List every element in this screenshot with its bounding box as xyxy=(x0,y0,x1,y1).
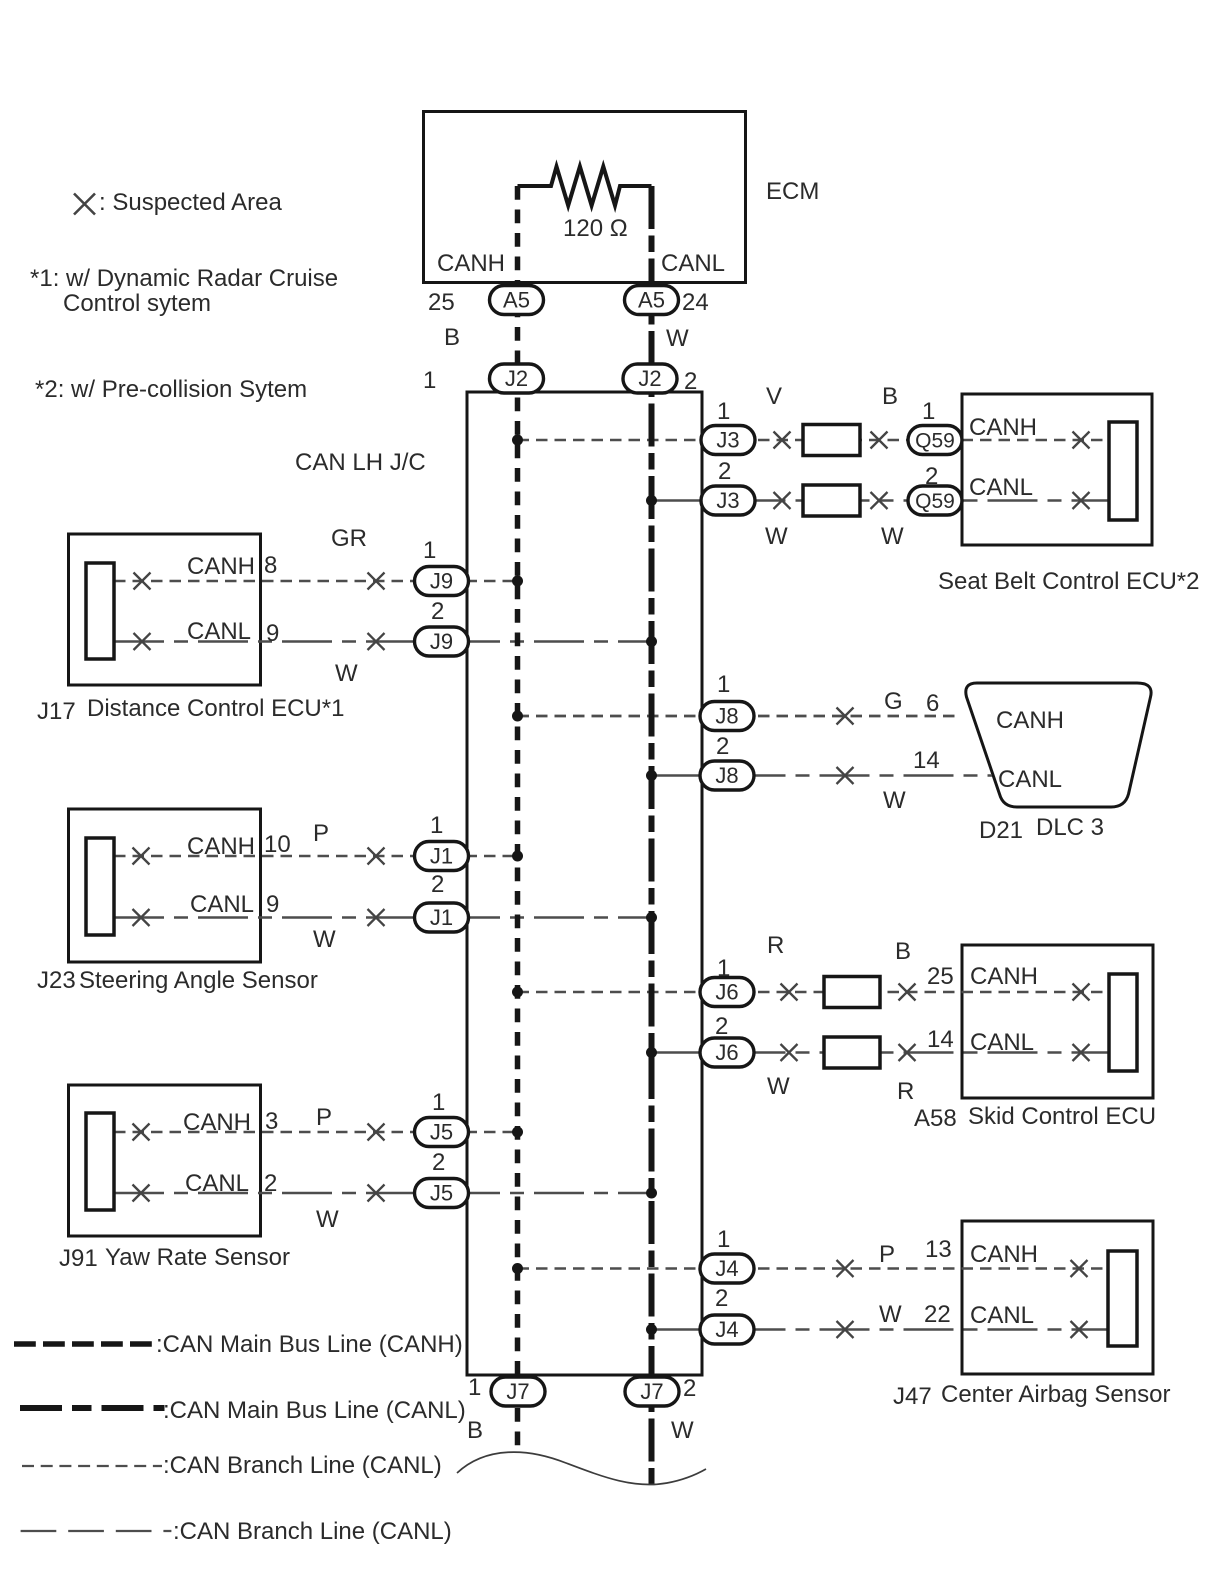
svg-text::CAN Main Bus Line (CANL): :CAN Main Bus Line (CANL) xyxy=(163,1397,466,1424)
connector J8 pin 2 xyxy=(700,761,754,790)
svg-text:1: 1 xyxy=(468,1374,481,1401)
svg-text:24: 24 xyxy=(682,289,709,316)
svg-text:J17: J17 xyxy=(37,698,76,725)
svg-text:J1: J1 xyxy=(430,905,453,930)
x mark (suspected area) xyxy=(368,848,385,865)
svg-text:G: G xyxy=(884,688,903,715)
x mark (suspected area) xyxy=(1073,1044,1090,1061)
connector bar skid control ECU xyxy=(1109,974,1137,1071)
svg-text:2: 2 xyxy=(716,733,729,760)
svg-text:J5: J5 xyxy=(430,1181,453,1206)
x mark (suspected area) xyxy=(837,767,854,784)
Steering Angle Sensor box J23 xyxy=(69,809,261,962)
connector J9 pin 2 xyxy=(415,627,469,656)
svg-text:13: 13 xyxy=(925,1236,952,1263)
svg-text:2: 2 xyxy=(715,1013,728,1040)
svg-text:W: W xyxy=(881,523,904,550)
connector bar seat belt ECU xyxy=(1109,422,1137,520)
junction CANH bus / J9 branch xyxy=(512,576,523,587)
svg-text:CANH: CANH xyxy=(437,250,505,277)
junction CANL bus / J4 branch xyxy=(646,1324,657,1335)
splice block skid CANL row xyxy=(824,1037,880,1068)
svg-text:Control sytem: Control sytem xyxy=(63,290,211,317)
svg-text:J7: J7 xyxy=(506,1379,529,1404)
svg-text:8: 8 xyxy=(264,552,277,579)
svg-text:10: 10 xyxy=(264,831,291,858)
junction CANH bus / J3 branch xyxy=(512,435,523,446)
connector bar J91 xyxy=(86,1113,114,1210)
x mark (suspected area) xyxy=(133,1185,150,1202)
x mark (suspected area) xyxy=(837,1321,854,1338)
x mark (suspected area) xyxy=(133,909,150,926)
x mark (suspected area) xyxy=(899,1044,916,1061)
x mark (suspected area) xyxy=(1073,492,1090,509)
svg-text:CAN LH J/C: CAN LH J/C xyxy=(295,449,426,476)
x mark (suspected area) xyxy=(368,909,385,926)
svg-text:25: 25 xyxy=(927,963,954,990)
junction CANL bus / J3 branch xyxy=(646,495,657,506)
connector bar J17 xyxy=(86,563,114,659)
wire CANL branch bus to J6 to Skid Control ECU xyxy=(652,1051,1110,1054)
svg-text:22: 22 xyxy=(924,1301,951,1328)
Seat Belt Control ECU box xyxy=(962,394,1152,545)
connector J6 pin 2 xyxy=(700,1038,754,1067)
connector J3 pin 1 xyxy=(701,426,755,455)
wire CANH branch J23 to J1 to CANH bus xyxy=(114,855,518,858)
x mark (suspected area) xyxy=(899,984,916,1001)
x mark (suspected area) xyxy=(1071,1260,1088,1277)
svg-text:J91: J91 xyxy=(59,1245,98,1272)
svg-text:CANL: CANL xyxy=(970,1302,1034,1329)
svg-text:W: W xyxy=(765,523,788,550)
connector J8 pin 1 xyxy=(700,702,754,731)
x mark (suspected area) xyxy=(368,633,385,650)
legend sample: CAN branch line (dashed) xyxy=(22,1465,162,1467)
svg-text:CANH: CANH xyxy=(183,1109,251,1136)
junction CANH bus / J8 branch xyxy=(512,711,523,722)
svg-text:1: 1 xyxy=(717,955,730,982)
svg-text:1: 1 xyxy=(717,1226,730,1253)
svg-text:J3: J3 xyxy=(716,488,739,513)
Center Airbag Sensor box xyxy=(962,1221,1153,1374)
wire CANH branch bus to J8 to DLC3 xyxy=(518,715,961,718)
svg-text:A58: A58 xyxy=(914,1105,957,1132)
connector J4 pin 1 xyxy=(700,1254,754,1283)
svg-text:CANH: CANH xyxy=(970,963,1038,990)
svg-text:CANH: CANH xyxy=(187,833,255,860)
svg-text:Seat Belt Control ECU*2: Seat Belt Control ECU*2 xyxy=(938,568,1199,595)
svg-text:2: 2 xyxy=(715,1285,728,1312)
svg-text:CANH: CANH xyxy=(996,707,1064,734)
svg-text:J6: J6 xyxy=(715,980,738,1005)
svg-text:J4: J4 xyxy=(715,1256,738,1281)
svg-text:J3: J3 xyxy=(716,428,739,453)
wire CANL branch J23 to J1 to CANL bus xyxy=(114,916,652,919)
svg-text:B: B xyxy=(882,383,898,410)
wavy break line at bottom of bus xyxy=(457,1452,706,1484)
svg-text:J8: J8 xyxy=(715,704,738,729)
svg-text:J9: J9 xyxy=(430,569,453,594)
svg-text:W: W xyxy=(671,1417,694,1444)
svg-text:CANL: CANL xyxy=(661,250,725,277)
splice block skid CANH row xyxy=(824,977,880,1008)
wire CANL branch J91 to J5 to CANL bus xyxy=(114,1192,652,1195)
svg-text:*2: w/ Pre-collision Sytem: *2: w/ Pre-collision Sytem xyxy=(35,376,307,403)
x mark (suspected area) xyxy=(1073,984,1090,1001)
splice block seat belt CANH row xyxy=(803,425,860,456)
wire CANH branch J91 to J5 to CANH bus xyxy=(114,1131,518,1134)
svg-text:1: 1 xyxy=(432,1089,445,1116)
x mark (suspected area) xyxy=(134,633,151,650)
x mark (suspected area) xyxy=(134,573,151,590)
svg-text:J4: J4 xyxy=(715,1317,738,1342)
connector J7 pin 1 xyxy=(491,1377,545,1406)
svg-text:W: W xyxy=(316,1206,339,1233)
svg-text:W: W xyxy=(767,1073,790,1100)
legend sample: CAN main bus line CANH xyxy=(14,1341,152,1347)
x mark (suspected area) xyxy=(871,432,888,449)
connector J4 pin 2 xyxy=(700,1315,754,1344)
svg-text:Distance Control ECU*1: Distance Control ECU*1 xyxy=(87,695,344,722)
svg-text:9: 9 xyxy=(266,891,279,918)
svg-text:2: 2 xyxy=(432,1149,445,1176)
junction CANL bus / J5 branch xyxy=(646,1188,657,1199)
DLC3 connector shape D21 xyxy=(966,683,1151,807)
svg-text:6: 6 xyxy=(926,690,939,717)
svg-text:CANL: CANL xyxy=(998,766,1062,793)
junction CANL bus / J9 branch xyxy=(646,636,657,647)
x mark (suspected area) xyxy=(871,492,888,509)
svg-text:W: W xyxy=(313,926,336,953)
svg-text::CAN Main Bus Line (CANH): :CAN Main Bus Line (CANH) xyxy=(156,1331,463,1358)
svg-text:GR: GR xyxy=(331,525,367,552)
svg-text:CANL: CANL xyxy=(187,618,251,645)
svg-text:1: 1 xyxy=(717,398,730,425)
svg-text:J9: J9 xyxy=(430,629,453,654)
legend sample: CAN branch line (long dash) xyxy=(21,1530,172,1532)
junction CANH bus / J4 branch xyxy=(512,1263,523,1274)
svg-text:R: R xyxy=(897,1078,914,1105)
junction CANL bus / J1 branch xyxy=(646,912,657,923)
CAN LH J/C junction box xyxy=(467,392,702,1375)
wire CANL branch bus to J3 to Q59 to Seat Belt ECU xyxy=(652,499,1110,502)
x mark (suspected area) xyxy=(1071,1321,1088,1338)
svg-text:1: 1 xyxy=(423,537,436,564)
connector bar J23 xyxy=(86,838,114,935)
x mark (suspected area) xyxy=(368,1124,385,1141)
x mark (suspected area) xyxy=(368,1185,385,1202)
svg-text:A5: A5 xyxy=(638,288,665,313)
wire CANH branch J17 to J9 to CANH bus xyxy=(114,580,518,583)
junction CANH bus / J1 branch xyxy=(512,851,523,862)
suspected area symbol in legend note xyxy=(74,194,95,215)
svg-text:ECM: ECM xyxy=(766,178,819,205)
connector J7 pin 2 xyxy=(625,1377,679,1406)
connector A5 pin 24 (ECM CANL) xyxy=(625,286,679,315)
junction CANL bus / J6 branch xyxy=(646,1047,657,1058)
svg-text:B: B xyxy=(444,324,460,351)
svg-text:Yaw Rate Sensor: Yaw Rate Sensor xyxy=(105,1244,290,1271)
svg-text:25: 25 xyxy=(428,289,455,316)
svg-text:Q59: Q59 xyxy=(915,490,955,513)
wire CANL branch bus to J4 to Center Airbag Sensor xyxy=(652,1328,1109,1331)
x mark (suspected area) xyxy=(781,984,798,1001)
svg-text:Q59: Q59 xyxy=(915,430,955,453)
svg-text:CANL: CANL xyxy=(969,474,1033,501)
svg-text::CAN Branch Line (CANL): :CAN Branch Line (CANL) xyxy=(163,1452,442,1479)
svg-text:CANH: CANH xyxy=(187,553,255,580)
svg-text:J1: J1 xyxy=(430,844,453,869)
x mark (suspected area) xyxy=(774,492,791,509)
ECM box xyxy=(424,112,746,283)
svg-text:J2: J2 xyxy=(638,366,661,391)
svg-text:CANL: CANL xyxy=(185,1170,249,1197)
svg-text:B: B xyxy=(467,1417,483,1444)
svg-text:W: W xyxy=(883,787,906,814)
svg-text:D21: D21 xyxy=(979,817,1023,844)
svg-text:120 Ω: 120 Ω xyxy=(563,215,628,242)
x mark (suspected area) xyxy=(133,1124,150,1141)
svg-text:1: 1 xyxy=(717,671,730,698)
connector J5 pin 2 xyxy=(415,1179,469,1208)
svg-text:2: 2 xyxy=(683,1375,696,1402)
svg-text:R: R xyxy=(767,932,784,959)
connector Q59 pin 2 xyxy=(908,486,962,515)
svg-text:A5: A5 xyxy=(503,288,530,313)
x mark (suspected area) xyxy=(368,573,385,590)
svg-text:P: P xyxy=(316,1104,332,1131)
svg-text:J6: J6 xyxy=(715,1040,738,1065)
svg-text:2: 2 xyxy=(925,463,938,490)
svg-text:14: 14 xyxy=(913,747,940,774)
resistor 120 ohm inside ECM xyxy=(518,167,652,206)
Yaw Rate Sensor box J91 xyxy=(69,1085,261,1236)
junction CANH bus / J5 branch xyxy=(512,1127,523,1138)
svg-text:J5: J5 xyxy=(430,1120,453,1145)
connector J3 pin 2 xyxy=(701,486,755,515)
svg-text:CANL: CANL xyxy=(190,891,254,918)
connector J1 pin 1 xyxy=(415,842,469,871)
splice block seat belt CANL row xyxy=(803,485,860,516)
svg-text:1: 1 xyxy=(430,812,443,839)
svg-text:CANL: CANL xyxy=(970,1029,1034,1056)
svg-text:2: 2 xyxy=(431,871,444,898)
svg-text:1: 1 xyxy=(423,367,436,394)
x mark (suspected area) xyxy=(781,1044,798,1061)
svg-text:B: B xyxy=(895,938,911,965)
svg-text:Skid Control ECU: Skid Control ECU xyxy=(968,1103,1156,1130)
x mark (suspected area) xyxy=(1073,432,1090,449)
svg-text:J7: J7 xyxy=(640,1379,663,1404)
svg-text:Center Airbag Sensor: Center Airbag Sensor xyxy=(941,1381,1170,1408)
svg-text:3: 3 xyxy=(265,1108,278,1135)
svg-text:14: 14 xyxy=(927,1026,954,1053)
svg-text:CANH: CANH xyxy=(969,414,1037,441)
wire CANH branch bus to J4 to Center Airbag Sensor xyxy=(518,1267,1109,1270)
svg-text:2: 2 xyxy=(718,458,731,485)
junction CANH bus / J6 branch xyxy=(512,987,523,998)
connector J6 pin 1 xyxy=(700,978,754,1007)
svg-text:J47: J47 xyxy=(893,1383,932,1410)
svg-text:Steering Angle Sensor: Steering Angle Sensor xyxy=(79,967,318,994)
svg-text:J23: J23 xyxy=(37,967,76,994)
svg-text:P: P xyxy=(879,1241,895,1268)
connector A5 pin 25 (ECM CANH) xyxy=(490,286,544,315)
connector bar center airbag sensor xyxy=(1108,1251,1137,1346)
svg-text:J8: J8 xyxy=(715,763,738,788)
x mark (suspected area) xyxy=(837,1260,854,1277)
svg-text:2: 2 xyxy=(684,368,697,395)
svg-text:W: W xyxy=(666,325,689,352)
connector J9 pin 1 xyxy=(415,567,469,596)
svg-text:DLC 3: DLC 3 xyxy=(1036,814,1104,841)
CAN main bus line CANH (vertical) xyxy=(515,186,521,1452)
Distance Control ECU box J17 xyxy=(69,534,261,685)
wire CANL branch J17 to J9 to CANL bus xyxy=(114,640,652,643)
svg-text:1: 1 xyxy=(922,398,935,425)
wire CANH branch bus to J3 to Q59 to Seat Belt ECU xyxy=(518,439,1110,442)
junction CANL bus / J8 branch xyxy=(646,770,657,781)
svg-text:W: W xyxy=(879,1301,902,1328)
x mark (suspected area) xyxy=(133,848,150,865)
svg-text:V: V xyxy=(766,383,782,410)
connector Q59 pin 1 xyxy=(908,426,962,455)
svg-text:J2: J2 xyxy=(505,366,528,391)
CAN main bus line CANL (vertical) xyxy=(649,186,655,1485)
connector J2 pin 2 xyxy=(623,364,677,393)
svg-text:CANH: CANH xyxy=(970,1241,1038,1268)
Skid Control ECU box xyxy=(962,945,1153,1098)
connector J5 pin 1 xyxy=(415,1118,469,1147)
x mark (suspected area) xyxy=(837,708,854,725)
svg-text:W: W xyxy=(335,660,358,687)
wire CANL branch bus to J8 to DLC3 xyxy=(652,774,993,777)
svg-text:: Suspected Area: : Suspected Area xyxy=(99,189,282,216)
svg-text::CAN Branch Line (CANL): :CAN Branch Line (CANL) xyxy=(173,1518,452,1545)
wire CANH branch bus to J6 to Skid Control ECU xyxy=(518,991,1110,994)
legend sample: CAN main bus line CANL xyxy=(20,1405,165,1411)
connector J1 pin 2 xyxy=(415,903,469,932)
svg-text:2: 2 xyxy=(264,1170,277,1197)
svg-text:P: P xyxy=(313,820,329,847)
x mark (suspected area) xyxy=(774,432,791,449)
svg-text:2: 2 xyxy=(431,598,444,625)
svg-text:*1: w/ Dynamic Radar Cruise: *1: w/ Dynamic Radar Cruise xyxy=(30,265,338,292)
svg-text:9: 9 xyxy=(266,620,279,647)
connector J2 pin 1 xyxy=(490,364,544,393)
